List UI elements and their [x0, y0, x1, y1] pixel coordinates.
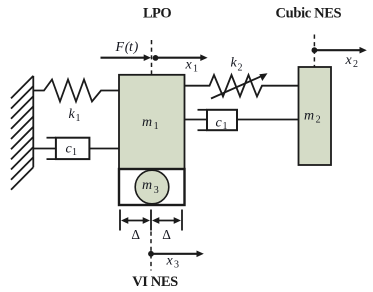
svg-text:x: x	[166, 253, 174, 268]
svg-text:2: 2	[316, 115, 321, 126]
svg-text:2: 2	[238, 62, 243, 73]
svg-text:LPO: LPO	[143, 5, 171, 21]
svg-text:1: 1	[154, 121, 159, 132]
svg-text:F: F	[115, 40, 125, 55]
svg-text:1: 1	[223, 121, 228, 132]
svg-text:c: c	[216, 115, 223, 130]
svg-text:m: m	[142, 115, 152, 130]
svg-text:2: 2	[353, 59, 358, 70]
svg-text:k: k	[69, 107, 76, 122]
svg-text:3: 3	[154, 185, 159, 196]
svg-text:Cubic NES: Cubic NES	[276, 6, 342, 22]
svg-text:m: m	[142, 178, 152, 193]
svg-text:Δ: Δ	[131, 227, 140, 242]
svg-text:VI NES: VI NES	[132, 274, 178, 290]
svg-text:1: 1	[76, 113, 81, 124]
svg-text:x: x	[345, 53, 353, 68]
svg-text:): )	[133, 40, 139, 55]
svg-text:1: 1	[72, 147, 77, 158]
svg-text:m: m	[304, 109, 314, 124]
svg-text:k: k	[231, 56, 238, 71]
svg-text:Δ: Δ	[162, 227, 171, 242]
svg-text:x: x	[185, 58, 193, 73]
svg-text:1: 1	[193, 63, 198, 74]
svg-text:3: 3	[174, 259, 179, 270]
